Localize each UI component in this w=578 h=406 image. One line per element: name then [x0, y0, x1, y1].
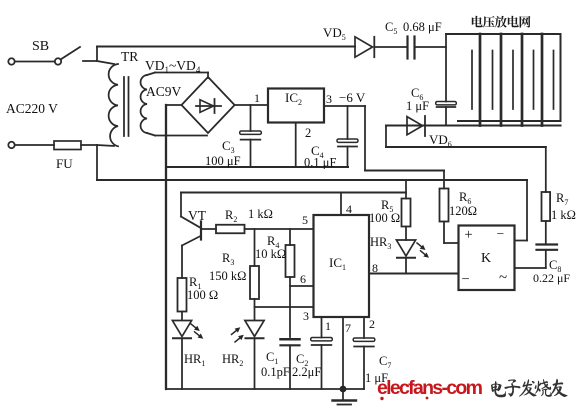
svg-text:2: 2	[305, 126, 311, 140]
svg-text:3: 3	[303, 309, 309, 323]
svg-text:TR: TR	[121, 49, 138, 64]
svg-text:7: 7	[345, 321, 351, 335]
svg-text:1 kΩ: 1 kΩ	[551, 208, 576, 222]
svg-text:0.22 μF: 0.22 μF	[533, 271, 570, 285]
svg-text:−: −	[497, 226, 505, 241]
svg-text:+: +	[465, 227, 473, 243]
svg-text:3: 3	[326, 92, 332, 106]
svg-text:100 Ω: 100 Ω	[187, 288, 218, 302]
svg-text:2.2μF: 2.2μF	[292, 365, 321, 379]
svg-text:elecfans-com: elecfans-com	[377, 377, 483, 399]
svg-text:AC9V: AC9V	[146, 84, 182, 99]
svg-text:1 μF: 1 μF	[406, 99, 429, 113]
svg-text:VT: VT	[188, 208, 207, 223]
svg-text:6: 6	[300, 272, 306, 286]
svg-text:4: 4	[346, 202, 352, 216]
svg-text:~: ~	[499, 270, 507, 286]
svg-text:150 kΩ: 150 kΩ	[209, 269, 246, 283]
svg-text:0.1 μF: 0.1 μF	[304, 156, 336, 170]
svg-text:8: 8	[372, 261, 378, 275]
svg-text:1 kΩ: 1 kΩ	[248, 207, 273, 221]
svg-text:100 μF: 100 μF	[205, 154, 241, 168]
svg-text:FU: FU	[56, 156, 73, 171]
svg-text:K: K	[481, 251, 491, 266]
svg-text:1: 1	[325, 319, 331, 333]
svg-text:AC220 V: AC220 V	[6, 101, 58, 116]
svg-text:0.1pF: 0.1pF	[261, 365, 290, 379]
svg-text:1: 1	[254, 91, 260, 105]
svg-text:−: −	[462, 272, 470, 288]
svg-text:0.68 μF: 0.68 μF	[403, 20, 442, 34]
svg-text:100 Ω: 100 Ω	[369, 211, 400, 225]
svg-text:5: 5	[302, 213, 308, 227]
svg-text:SB: SB	[32, 39, 49, 54]
svg-text:10 kΩ: 10 kΩ	[255, 247, 286, 261]
svg-text:−6 V: −6 V	[339, 90, 366, 105]
svg-text:2: 2	[369, 317, 375, 331]
svg-text:120Ω: 120Ω	[449, 204, 477, 218]
